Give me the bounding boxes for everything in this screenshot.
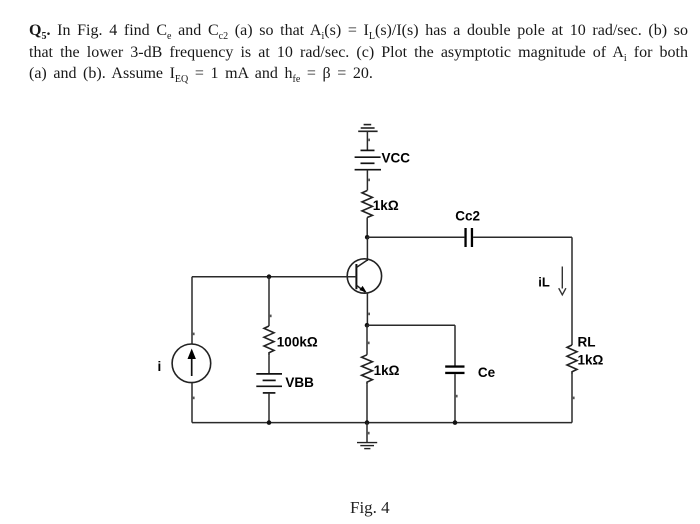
wire	[366, 218, 368, 238]
node collector junction	[365, 235, 370, 240]
wire	[571, 237, 573, 345]
wire left bottom vertical	[192, 383, 195, 423]
resistor RB 100k	[264, 326, 274, 355]
resistor RL	[567, 345, 577, 374]
power symbol VCC top bar	[358, 125, 377, 132]
node bottom Ce	[453, 420, 458, 425]
node bottom VBB	[267, 420, 272, 425]
wire emitter	[367, 292, 370, 325]
svg-text:VCC: VCC	[382, 151, 411, 166]
wire left top vertical	[192, 277, 195, 345]
resistor R collector 1k	[362, 191, 372, 218]
svg-text:1kΩ: 1kΩ	[578, 353, 604, 368]
svg-text:1kΩ: 1kΩ	[373, 198, 399, 213]
current arrow iL	[559, 267, 566, 295]
battery VBB	[256, 374, 282, 393]
svg-text:iL: iL	[538, 275, 550, 290]
wire base	[192, 276, 356, 278]
current source i	[172, 344, 211, 383]
node base junction	[267, 274, 272, 279]
svg-text:1kΩ: 1kΩ	[374, 363, 400, 378]
wire emitter to Ce	[367, 325, 455, 365]
wire	[268, 393, 270, 423]
capacitor Cc2	[464, 228, 473, 247]
svg-text:Ce: Ce	[478, 365, 496, 380]
node emitter junction	[365, 323, 370, 328]
battery VCC	[355, 150, 381, 169]
wire	[473, 236, 572, 238]
transistor Q1	[347, 259, 381, 293]
wire	[366, 131, 368, 150]
wire	[367, 139, 370, 191]
wire bottom rail	[192, 422, 572, 424]
capacitor Ce	[445, 365, 464, 374]
wire	[268, 355, 270, 374]
wire	[367, 236, 464, 238]
svg-text:i: i	[158, 359, 162, 374]
wire 100k branch top	[269, 277, 272, 326]
svg-text:VBB: VBB	[285, 375, 314, 390]
svg-text:RL: RL	[578, 334, 596, 349]
ground	[357, 423, 377, 449]
resistor RE 1k emitter	[362, 325, 373, 422]
wire below Ce	[455, 374, 458, 423]
svg-text:Cc2: Cc2	[455, 208, 480, 223]
node bottom center	[365, 420, 370, 425]
wire collector stub	[366, 237, 368, 261]
wire	[572, 374, 575, 423]
svg-text:100kΩ: 100kΩ	[277, 334, 318, 349]
